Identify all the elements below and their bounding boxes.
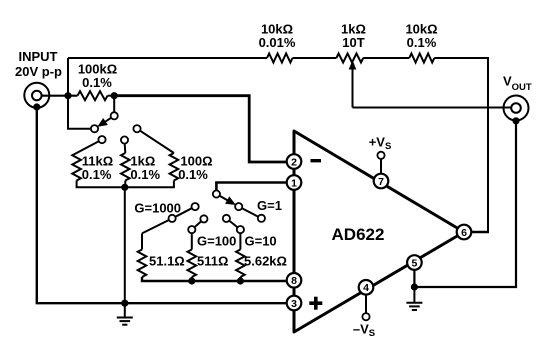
resistor 10k 0.1% R3	[409, 54, 434, 63]
lead terminal to 5.62k resistor	[239, 233, 241, 249]
resistor 511ohm R9	[188, 250, 197, 278]
pin 3	[287, 296, 302, 311]
lead G=1000 to terminal	[175, 208, 192, 217]
terminal circle G=10	[237, 226, 244, 233]
switch S2 contact G=1	[235, 203, 242, 210]
VOUT BNC connector J2	[504, 96, 529, 121]
svg-text:1: 1	[291, 177, 297, 189]
svg-text:0.1%: 0.1%	[178, 167, 208, 182]
wire bridge right down to amp output	[434, 58, 488, 232]
svg-text:G=1000: G=1000	[134, 201, 181, 216]
wire gain network rail to pin 8	[142, 277, 287, 281]
svg-text:8: 8	[291, 275, 297, 287]
switch S2 contact G=10	[223, 215, 230, 222]
svg-text:INPUT: INPUT	[19, 49, 58, 64]
potentiometer 1k 10T R2	[336, 54, 363, 108]
resistor 5.62k R10	[236, 250, 245, 278]
svg-text:0.1%: 0.1%	[407, 35, 437, 50]
svg-text:5.62kΩ: 5.62kΩ	[244, 254, 287, 269]
ground symbol left	[117, 303, 133, 325]
switch S1 contact for 1k	[121, 136, 128, 143]
wire node B down to attenuator switch pivot	[113, 96, 115, 113]
lead terminal to 511 resistor	[191, 233, 193, 249]
lead terminal to 51.1 resistor	[142, 220, 169, 250]
resistor 100k 0.1% R4	[78, 91, 108, 100]
wire pin 6 output stub	[471, 231, 489, 234]
switch S1 contact: short (to input node)	[91, 125, 98, 132]
svg-text:0.1%: 0.1%	[82, 75, 112, 90]
wire between pot and R3	[363, 57, 409, 59]
switch S1 contact for 100ohm	[133, 125, 140, 132]
junction divider bottom rail	[121, 184, 128, 191]
svg-text:–VS: –VS	[353, 322, 375, 340]
svg-text:10T: 10T	[342, 35, 364, 50]
+VS supply terminal	[380, 159, 382, 174]
VOUT shield junction dot	[512, 117, 519, 124]
wire 11k/1k/100 bottom rail	[77, 181, 174, 188]
op-amp U1 AD622 triangle	[294, 131, 464, 332]
lead contact to 1k resistor	[124, 144, 127, 153]
wire node B to pin 2 (signal path)	[114, 96, 287, 162]
input BNC connector J1	[24, 83, 49, 108]
wire input shield to ground rail and pin 3	[37, 107, 287, 303]
resistor 1k 0.1% R6	[121, 153, 130, 181]
svg-text:5: 5	[411, 257, 417, 269]
junction pin5 ground node	[411, 283, 418, 290]
switch S2 contact G=100	[200, 215, 207, 222]
lead contact to 100ohm resistor	[140, 131, 174, 153]
switch S2 contact G=1000	[192, 203, 199, 210]
pin 2	[287, 154, 302, 169]
wire between R1 and pot	[293, 57, 337, 59]
svg-text:7: 7	[378, 176, 384, 188]
svg-text:51.1Ω: 51.1Ω	[149, 254, 185, 269]
junction ground rail	[121, 300, 128, 307]
svg-text:G=10: G=10	[245, 234, 277, 249]
resistor 10k 0.01% R1	[267, 54, 293, 63]
svg-text:AD622: AD622	[332, 225, 385, 244]
wire top bridge left: input node up and across	[68, 58, 267, 129]
switch S2 wiper arrow to G=1 contact	[220, 196, 236, 205]
terminal circle G=100	[188, 226, 195, 233]
switch S1 wiper arrow to selected contact	[97, 118, 111, 127]
svg-text:+VS: +VS	[369, 135, 392, 153]
wire divider rail down to ground rail	[124, 187, 126, 303]
svg-text:2: 2	[291, 156, 297, 168]
pin 7	[374, 174, 389, 189]
switch S2 pivot circle (from pin 1)	[213, 190, 220, 197]
wire VOUT shield to ground node	[414, 121, 516, 287]
junction node B (100k right)	[111, 92, 118, 99]
resistor 100ohm 0.1% R7	[170, 153, 179, 181]
lead G=100 to terminal	[195, 221, 202, 227]
svg-text:VOUT: VOUT	[503, 74, 532, 94]
switch S1 pivot circle (from 100k right)	[111, 112, 118, 119]
input shield junction dot	[33, 103, 40, 110]
svg-text:0.01%: 0.01%	[259, 35, 296, 50]
minus sign at pin 2 input	[311, 159, 322, 162]
junction gain rail 5.62k	[237, 277, 244, 284]
resistor 51.1ohm R8	[138, 250, 147, 278]
svg-text:20V p-p: 20V p-p	[15, 64, 62, 79]
pin 5	[407, 255, 422, 270]
junction node A (input/100k left)	[64, 92, 71, 99]
wire pot wiper to VOUT	[353, 107, 512, 109]
ground symbol right	[406, 287, 422, 310]
switch S1 contact for 11k	[98, 136, 105, 143]
svg-text:3: 3	[291, 298, 297, 310]
resistor 11k 0.1% R5	[72, 153, 81, 181]
terminal circle G=1000	[169, 215, 176, 222]
svg-text:G=100: G=100	[197, 234, 236, 249]
lead G=10 to terminal	[229, 221, 237, 228]
plus sign at pin 3 input	[309, 297, 322, 310]
wire pin 1 to gain switch pivot	[216, 183, 287, 191]
svg-text:G=1: G=1	[257, 198, 282, 213]
svg-text:511Ω: 511Ω	[197, 254, 228, 269]
lead G=1 open terminal	[242, 208, 258, 217]
lead contact to 11k resistor	[77, 141, 99, 153]
svg-text:0.1%: 0.1%	[130, 167, 160, 182]
svg-text:0.1%: 0.1%	[82, 167, 112, 182]
wire pin 5 to ground node	[413, 270, 415, 287]
svg-text:6: 6	[461, 227, 467, 239]
pin 6	[457, 225, 472, 240]
junction gain rail 511	[188, 277, 195, 284]
open terminal circle G=1	[258, 215, 265, 222]
wire 100k to node B	[108, 95, 115, 97]
wire input to 100k	[42, 95, 78, 97]
pin 1	[287, 175, 302, 190]
pin 4	[359, 280, 374, 295]
pin 8	[287, 273, 302, 288]
svg-text:4: 4	[363, 282, 369, 294]
-VS supply terminal	[365, 295, 367, 314]
